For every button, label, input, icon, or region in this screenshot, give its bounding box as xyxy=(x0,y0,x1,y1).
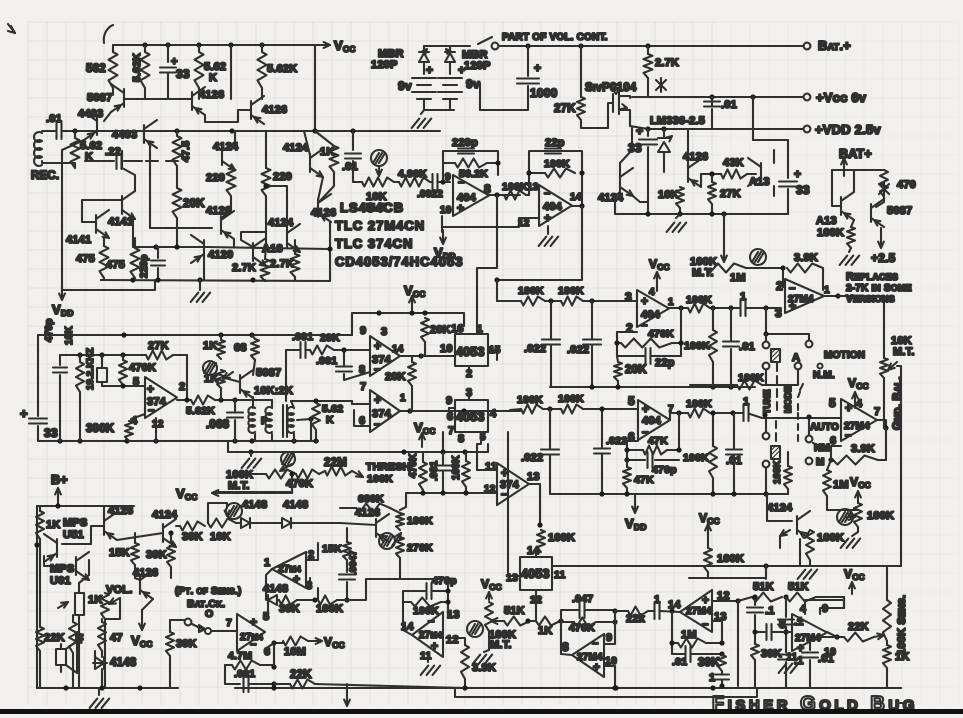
resistor 100K out d xyxy=(688,409,710,418)
svg-text:470K: 470K xyxy=(286,478,313,490)
wire xyxy=(787,452,789,466)
wire xyxy=(785,632,787,652)
junction xyxy=(612,685,617,690)
capacitor .001 hang xyxy=(435,464,451,466)
wire step to Vcc bus xyxy=(351,313,353,335)
svg-text:7: 7 xyxy=(874,406,880,418)
svg-text:15K: 15K xyxy=(109,547,130,559)
svg-text:56.2K: 56.2K xyxy=(459,168,488,180)
svg-text:20K: 20K xyxy=(385,371,406,383)
pot 100K SENS xyxy=(883,600,891,641)
wire xyxy=(765,334,767,341)
svg-text:13: 13 xyxy=(506,572,518,584)
wire xyxy=(655,459,679,461)
svg-text:4141: 4141 xyxy=(66,234,91,246)
wire xyxy=(530,620,536,622)
wire xyxy=(549,455,551,494)
resistor 4.99K xyxy=(399,178,430,187)
wire right col xyxy=(765,566,767,579)
wire xyxy=(79,575,89,583)
resistor 39K g xyxy=(751,644,759,660)
wire xyxy=(169,656,171,688)
op-amp 404 first xyxy=(453,175,489,216)
wire vol bracket xyxy=(105,598,120,619)
svg-text:12: 12 xyxy=(152,419,164,430)
wire xyxy=(265,247,266,259)
wire xyxy=(733,413,735,449)
svg-text:.01: .01 xyxy=(726,455,742,467)
svg-text:4126: 4126 xyxy=(206,205,231,217)
wire xyxy=(712,413,714,446)
wire up from .0047 xyxy=(347,579,400,600)
svg-text:100K: 100K xyxy=(817,227,844,239)
wire xyxy=(667,413,679,450)
wire xyxy=(442,452,444,465)
wire sub bus xyxy=(455,688,757,697)
wire xyxy=(672,642,678,644)
arrow Vcc 27M4g xyxy=(851,582,853,594)
arrow +2.5 xyxy=(880,228,882,248)
svg-text:5: 5 xyxy=(133,376,139,388)
wire xyxy=(346,528,348,542)
wire gate xyxy=(580,46,582,97)
junction xyxy=(676,410,681,415)
svg-text:4053: 4053 xyxy=(521,567,550,581)
wire xyxy=(601,454,603,494)
junction xyxy=(547,406,552,411)
wire xyxy=(581,120,608,128)
wire cap drop a xyxy=(550,301,552,339)
arrow B+ xyxy=(57,488,59,506)
wire xyxy=(317,588,319,600)
wire xyxy=(853,170,855,192)
wire 4141b emitter xyxy=(103,238,105,246)
wire xyxy=(230,165,232,168)
wire fb 22p row xyxy=(617,355,644,357)
svg-text:+: + xyxy=(426,63,433,77)
wire pin10 loop xyxy=(604,666,615,688)
svg-text:+: + xyxy=(147,382,154,396)
transistor 4124 a xyxy=(221,147,223,165)
wire xyxy=(710,307,739,309)
wire xyxy=(173,354,187,356)
resistor 5.62K b xyxy=(195,52,204,88)
junction xyxy=(271,685,276,690)
resistor 100K sens xyxy=(396,513,404,530)
ground audio xyxy=(90,699,98,708)
svg-text:.047: .047 xyxy=(572,593,593,605)
svg-text:1M: 1M xyxy=(681,629,697,641)
wire xyxy=(250,522,282,524)
svg-text:220: 220 xyxy=(206,172,225,184)
wire xyxy=(39,545,41,627)
capacitor 33 osc xyxy=(29,417,47,419)
capacitor 22p fb xyxy=(644,348,646,364)
pot 100K MT bottom xyxy=(485,602,493,631)
svg-text:VCC: VCC xyxy=(324,635,345,650)
capacitor 220p xyxy=(151,259,165,261)
svg-text:120P: 120P xyxy=(371,59,398,71)
svg-text:8: 8 xyxy=(779,617,786,631)
svg-text:4141: 4141 xyxy=(108,216,133,228)
wire pin2 stub xyxy=(468,366,470,372)
wire out 374d xyxy=(400,410,520,412)
wire xyxy=(843,597,845,608)
wire xyxy=(59,355,61,365)
transistor A13 mon xyxy=(840,197,842,215)
svg-text:14: 14 xyxy=(570,192,582,203)
op-amp 404 second xyxy=(539,185,572,226)
svg-text:6: 6 xyxy=(264,646,270,658)
wire bottom bus preamp xyxy=(101,280,330,281)
wire xyxy=(271,400,273,408)
svg-text:475: 475 xyxy=(76,253,95,265)
svg-text:VCC: VCC xyxy=(176,486,198,502)
junction xyxy=(709,94,714,99)
capacitor series g xyxy=(765,624,767,640)
wire xyxy=(430,181,432,183)
wire xyxy=(234,400,236,411)
svg-text:.01: .01 xyxy=(818,653,834,665)
wire xyxy=(132,219,134,247)
svg-text:22M: 22M xyxy=(324,457,347,469)
svg-text:5087: 5087 xyxy=(887,205,912,217)
wire mid row ext xyxy=(207,247,330,249)
capacitor .1 b xyxy=(778,618,794,620)
arrow pot 1K xyxy=(223,372,233,379)
resistor 220 b xyxy=(262,168,271,196)
resistor 68 xyxy=(251,339,259,360)
wire audio bottom xyxy=(37,687,178,689)
pot hatched tune xyxy=(771,349,780,362)
svg-text:TUNE: TUNE xyxy=(762,390,772,415)
arrow gndbal wiper xyxy=(888,362,897,370)
svg-text:100K: 100K xyxy=(686,294,712,306)
transistor 5087 c xyxy=(239,375,241,393)
svg-text:N.M.: N.M. xyxy=(813,370,835,381)
resistor 470 xyxy=(880,170,888,197)
wire xyxy=(583,408,638,410)
svg-text:20K: 20K xyxy=(430,324,451,336)
wire 470K row2 xyxy=(561,621,574,623)
wire xyxy=(421,110,424,114)
wire xyxy=(754,597,756,605)
svg-text:390K: 390K xyxy=(86,423,115,435)
junction xyxy=(612,608,617,613)
wire xyxy=(808,418,810,435)
wire xyxy=(421,355,425,356)
svg-text:39K: 39K xyxy=(182,531,203,543)
wire xyxy=(234,420,236,441)
svg-text:−: − xyxy=(374,419,381,431)
wire xyxy=(411,356,413,362)
wire xyxy=(252,473,266,475)
wire bat bottom xyxy=(424,99,454,110)
wire xyxy=(679,208,681,214)
svg-text:−: − xyxy=(845,430,852,442)
arrow into mic xyxy=(58,602,68,608)
junction xyxy=(599,406,604,411)
resistor 100K mon xyxy=(847,227,855,248)
svg-text:4053: 4053 xyxy=(456,345,485,359)
wire pin6 fb xyxy=(627,441,638,447)
resistor 1M b xyxy=(823,470,831,496)
junction xyxy=(494,192,499,197)
transistor 4403 b xyxy=(143,125,145,143)
junction xyxy=(612,619,617,624)
svg-text:+: + xyxy=(534,61,541,75)
transistor MPSU51 xyxy=(56,539,58,557)
wire xyxy=(176,131,178,136)
op-amp 374 fourth xyxy=(370,390,400,432)
junction xyxy=(418,353,423,358)
wire pin12 stub xyxy=(155,418,157,441)
wire xyxy=(400,493,406,510)
wire xyxy=(39,539,41,545)
wire xyxy=(449,62,451,74)
wire BAT+ rail xyxy=(499,45,803,47)
junction xyxy=(883,425,888,430)
wire xyxy=(627,449,643,451)
wire sw feed xyxy=(766,308,809,334)
transistor 4126 d xyxy=(317,199,319,217)
terminal sw a xyxy=(763,342,770,349)
svg-text:7: 7 xyxy=(448,425,454,437)
svg-text:20K: 20K xyxy=(320,332,340,344)
diode MBR120P a xyxy=(419,53,429,62)
wire pin10 xyxy=(442,355,455,357)
wire xyxy=(810,636,837,638)
wire xyxy=(122,355,124,360)
wire xyxy=(449,46,451,53)
svg-text:+: + xyxy=(374,339,381,353)
wire VDD stub xyxy=(441,227,443,232)
wire xyxy=(225,665,240,684)
wire xyxy=(220,335,222,340)
wire xyxy=(626,488,628,494)
svg-text:51K: 51K xyxy=(753,581,774,593)
svg-text:A13: A13 xyxy=(816,215,837,227)
svg-text:1M: 1M xyxy=(730,272,746,284)
svg-text:4124: 4124 xyxy=(598,192,624,204)
wire 374d fb xyxy=(354,410,370,426)
wire xyxy=(176,218,178,247)
svg-text:100K: 100K xyxy=(517,394,543,406)
ground osc xyxy=(242,459,250,468)
transformer core xyxy=(282,405,284,437)
capacitor .068 xyxy=(227,411,243,413)
wire mix in b xyxy=(352,401,370,404)
svg-text:1: 1 xyxy=(740,291,746,303)
trimmer b xyxy=(203,361,217,375)
svg-text:68: 68 xyxy=(234,342,247,354)
wire Vcc pin4 xyxy=(656,277,658,291)
arrow VDD xyxy=(61,286,63,300)
svg-text:+2.5: +2.5 xyxy=(871,251,896,265)
svg-text:100K: 100K xyxy=(817,532,844,544)
switch batck xyxy=(192,624,204,630)
wire xyxy=(765,468,767,494)
wire cap drop b xyxy=(591,301,593,339)
wire xyxy=(480,86,528,110)
svg-text:220p: 220p xyxy=(139,254,150,278)
svg-text:680K: 680K xyxy=(358,493,384,505)
wire xyxy=(215,399,272,401)
terminal NM xyxy=(806,436,813,443)
wire xyxy=(626,460,628,467)
svg-text:10K: 10K xyxy=(658,189,679,201)
resistor 100K g xyxy=(704,548,712,572)
wire xyxy=(560,620,561,622)
wire xyxy=(785,662,787,688)
svg-text:220p: 220p xyxy=(452,137,478,149)
resistor 20K b xyxy=(408,362,416,386)
transistor 4403 a xyxy=(96,117,98,135)
wire xyxy=(647,46,649,54)
capacitor .022 d xyxy=(594,447,610,449)
wire VDD drop xyxy=(61,163,63,290)
svg-text:2.7K: 2.7K xyxy=(655,57,679,69)
wire xyxy=(762,384,766,386)
wire row 578 xyxy=(689,577,708,579)
resistor 10K osc xyxy=(76,362,84,392)
svg-text:5.62K: 5.62K xyxy=(186,405,215,417)
svg-text:27K: 27K xyxy=(148,340,169,352)
svg-text:4148: 4148 xyxy=(263,583,288,595)
wire xyxy=(103,506,105,518)
wire xyxy=(711,97,713,105)
svg-text:+: + xyxy=(702,593,709,607)
pot 100K MT body xyxy=(706,264,746,273)
svg-text:1: 1 xyxy=(654,594,660,606)
svg-text:A13: A13 xyxy=(749,176,770,188)
wire xyxy=(706,642,722,644)
component mic rect xyxy=(75,593,84,615)
arrow Vcc left xyxy=(212,492,226,494)
wire xyxy=(710,412,742,414)
wire xyxy=(78,615,80,688)
svg-text:+VDD 2.5v: +VDD 2.5v xyxy=(815,122,881,137)
wire pin1 drop xyxy=(476,280,478,334)
svg-text:43K: 43K xyxy=(723,157,744,169)
svg-text:2: 2 xyxy=(179,381,185,393)
svg-text:4124: 4124 xyxy=(152,509,178,521)
svg-text:.068: .068 xyxy=(206,419,230,431)
wire xyxy=(273,643,275,667)
svg-text:33: 33 xyxy=(176,67,190,81)
resistor 47K v xyxy=(623,467,631,488)
junction xyxy=(548,298,553,303)
wire xyxy=(394,181,399,183)
wire xyxy=(198,45,200,52)
wire xyxy=(167,73,169,99)
wire 4141a collector xyxy=(122,151,135,191)
wire 4126 base feed xyxy=(62,526,104,544)
resistor 470K hang xyxy=(419,462,427,490)
wire xyxy=(809,560,811,566)
wire mon top xyxy=(832,169,884,171)
resistor 47 b xyxy=(98,622,106,651)
transformer primary left xyxy=(248,407,255,433)
wire xyxy=(37,426,39,441)
wire xyxy=(403,591,425,602)
wire xyxy=(306,543,318,560)
terminal sw d xyxy=(795,363,802,370)
op-amp 27M4 c xyxy=(272,552,306,588)
wire xyxy=(765,566,767,578)
wire mid row xyxy=(133,246,207,248)
svg-text:M.T.: M.T. xyxy=(228,480,250,492)
wire out 374e xyxy=(529,484,540,525)
wire 4126d emitter xyxy=(329,222,331,281)
svg-text:470p: 470p xyxy=(652,464,677,476)
junction xyxy=(719,683,724,688)
wire xyxy=(250,683,274,685)
junction xyxy=(735,598,740,603)
svg-text:20K: 20K xyxy=(625,364,647,376)
junction xyxy=(719,651,724,656)
capacitor 1000 xyxy=(517,77,539,79)
junction xyxy=(327,246,332,251)
wire long link xyxy=(508,575,520,577)
svg-text:.001: .001 xyxy=(429,460,440,481)
junction xyxy=(835,293,840,298)
resistor 47.5 xyxy=(173,136,182,166)
wire 4120 collector xyxy=(203,258,205,280)
wire xyxy=(271,434,273,441)
wire xyxy=(550,345,552,387)
wire xyxy=(293,434,295,441)
junction xyxy=(752,594,757,599)
wire xyxy=(176,525,180,527)
wire pin3 stub xyxy=(468,392,470,400)
wire xyxy=(277,599,279,601)
trimmer sens xyxy=(379,533,395,549)
wire xyxy=(112,45,114,52)
capacitor .01 out xyxy=(802,651,818,653)
wire osc box top xyxy=(38,334,352,336)
ground mon xyxy=(840,256,848,265)
resistor 470K thresh xyxy=(296,470,319,479)
transistor A13 reg xyxy=(760,163,762,181)
wire 4126a-4126b link xyxy=(205,110,251,122)
resistor 5.62K sec xyxy=(312,403,320,430)
resistor 51K row xyxy=(504,617,530,626)
wire xyxy=(692,653,722,655)
wire xyxy=(754,660,756,688)
svg-text:100K: 100K xyxy=(684,340,710,352)
trimmer bottom xyxy=(467,621,483,637)
resistor 51K c xyxy=(752,593,782,602)
arrow thresh wiper xyxy=(280,464,292,471)
svg-text:22K: 22K xyxy=(848,621,869,633)
wire top bus right xyxy=(552,565,901,567)
arrow down bottom xyxy=(346,688,348,706)
junction xyxy=(420,490,425,495)
resistor 5.62K out xyxy=(191,396,215,405)
wire audio top xyxy=(37,505,134,507)
graph paper grid xyxy=(28,22,719,705)
resistor 100K r1b xyxy=(561,297,583,306)
junction xyxy=(289,471,294,476)
wire out row xyxy=(177,399,191,401)
junction dots main wire xyxy=(72,128,77,133)
wire pin5 drop xyxy=(477,432,481,470)
wire xyxy=(730,308,732,340)
op-amp 27M4 f xyxy=(572,634,604,677)
svg-text:1: 1 xyxy=(709,672,715,684)
op-amp 404 third-stage xyxy=(637,290,669,327)
